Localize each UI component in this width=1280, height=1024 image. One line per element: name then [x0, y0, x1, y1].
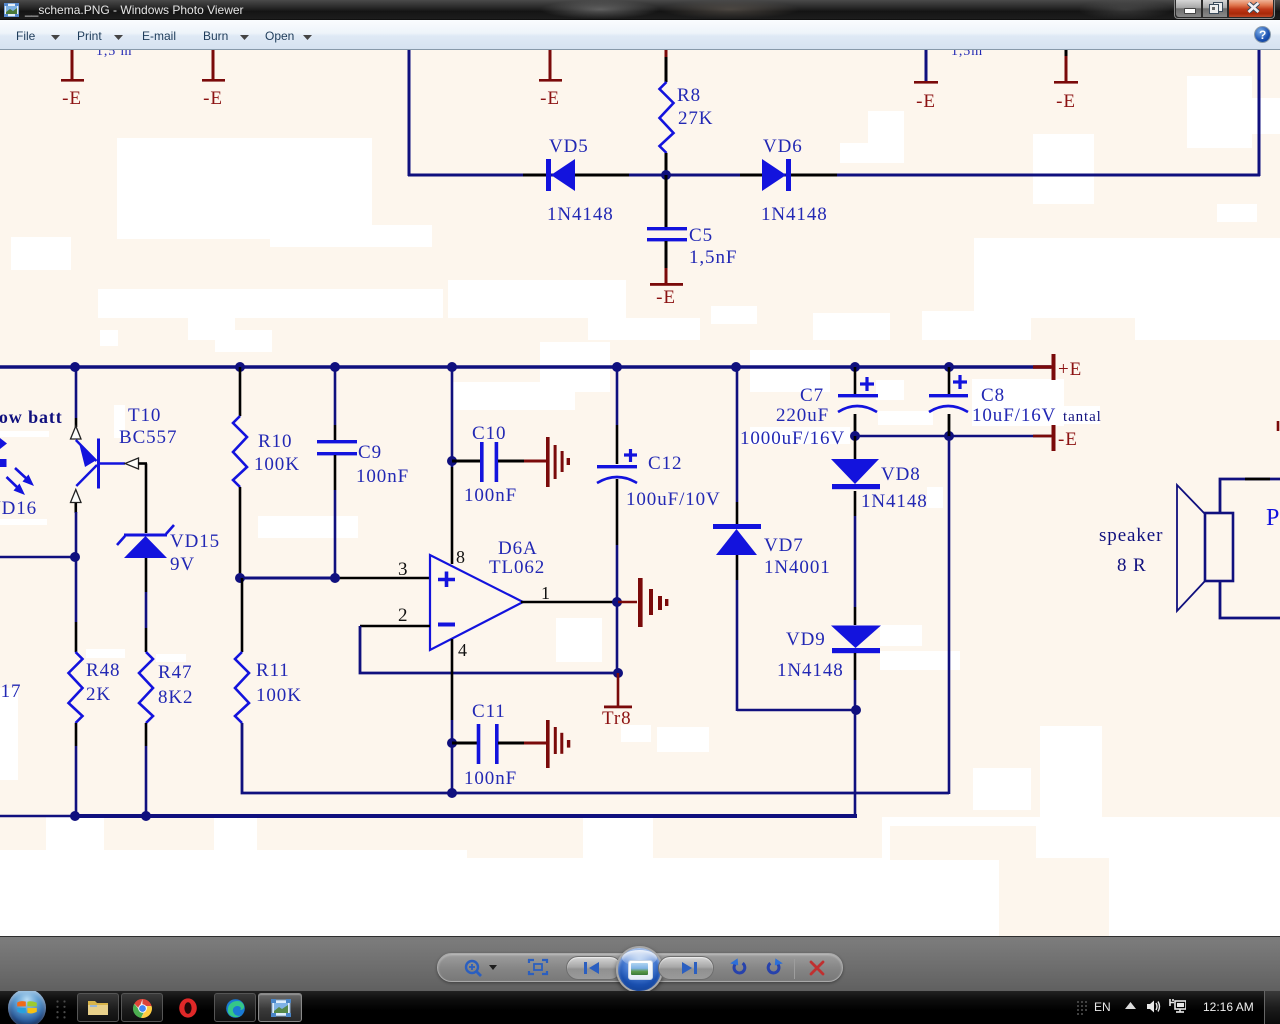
svg-text:-E: -E — [203, 88, 223, 109]
wire (speaker bottom) — [1220, 581, 1280, 618]
resistor R47 8K2 — [139, 652, 193, 723]
svg-text:1,5nF: 1,5nF — [689, 247, 737, 268]
taskbar button: explorer — [77, 993, 119, 1022]
svg-text:tantal: tantal — [1063, 409, 1102, 425]
svg-text:9V: 9V — [170, 554, 195, 575]
wire (right vertical to main row) — [1258, 50, 1261, 176]
wire (T10 collector down) — [75, 512, 78, 622]
ground (chassis, at op-amp output) — [618, 578, 668, 627]
svg-text:C11: C11 — [472, 701, 506, 722]
svg-text:-E: -E — [656, 287, 676, 308]
wire (C8 branch down to return row) — [948, 436, 951, 794]
wire (feedback loop) — [360, 626, 618, 673]
app icon — [4, 3, 19, 17]
svg-text:220uF: 220uF — [776, 405, 829, 426]
wire (-E row y436) — [855, 435, 1051, 438]
svg-text:1N4148: 1N4148 — [547, 204, 614, 225]
svg-text:1N4148: 1N4148 — [861, 491, 928, 512]
svg-text:D6A: D6A — [498, 538, 538, 559]
svg-text:VD8: VD8 — [881, 464, 921, 485]
svg-text:8K2: 8K2 — [158, 687, 193, 708]
svg-text:100nF: 100nF — [464, 768, 517, 789]
ground -E (top left 1) — [61, 50, 84, 109]
wire (pin4 to bottom row) — [451, 743, 454, 793]
taskbar button: photo viewer (active) — [258, 993, 302, 1022]
svg-text:C9: C9 — [358, 442, 382, 463]
wire (R11 to -E return row y793) — [242, 723, 949, 793]
capacitor C7 220uF / 1000uF/16V — [740, 367, 878, 449]
node (LED/T10 junction) — [70, 552, 80, 562]
wire (inverting input y626) — [360, 625, 430, 628]
taskbar button: chrome — [121, 993, 163, 1022]
speaker 8R — [1099, 485, 1233, 611]
svg-text:100K: 100K — [256, 685, 302, 706]
svg-text:1N4148: 1N4148 — [777, 660, 844, 681]
tray grip dots — [1076, 1000, 1088, 1016]
wire (R47 to bottom bus) — [145, 723, 148, 746]
show desktop — [1264, 991, 1280, 1024]
capacitor C8 10uF/16V tantal — [929, 367, 1102, 437]
svg-text:R48: R48 — [86, 660, 120, 681]
wire (noninverting input row y578) — [240, 577, 335, 580]
node (bottom bus junctions) — [70, 811, 80, 821]
svg-text:1N4148: 1N4148 — [761, 204, 828, 225]
ground -E (below C5) — [650, 268, 683, 308]
pin 8 (V+) wire — [451, 367, 454, 467]
opera icon (no frame) — [178, 998, 198, 1018]
capacitor C5 1,5nF — [647, 175, 737, 284]
svg-text:10uF/16V: 10uF/16V — [972, 405, 1056, 426]
power +E — [1033, 354, 1082, 380]
svg-text:2K: 2K — [86, 684, 111, 705]
svg-text:R8: R8 — [677, 85, 701, 106]
svg-text:VD16: VD16 — [0, 498, 37, 519]
capacitor C9 100nF — [317, 367, 409, 578]
wire (speaker top) — [1220, 479, 1280, 513]
ground -E (top left 2) — [202, 50, 225, 109]
svg-text:8 R: 8 R — [1117, 555, 1147, 576]
svg-text:VD7: VD7 — [764, 535, 804, 556]
svg-text:D17: D17 — [0, 681, 21, 702]
svg-text:-E: -E — [540, 88, 560, 109]
magnifier + dropdown — [462, 959, 502, 979]
svg-text:speaker: speaker — [1099, 525, 1163, 546]
taskbar button: edge — [214, 993, 256, 1022]
svg-text:VD5: VD5 — [549, 136, 589, 157]
svg-text:4: 4 — [458, 640, 468, 660]
diode VD5 1N4148 — [546, 136, 614, 225]
wire (left horizontal into junction) — [0, 556, 76, 559]
capacitor C11 100nF — [452, 701, 546, 789]
LED VD16 (cut at left edge) — [0, 438, 37, 519]
divider — [794, 959, 795, 979]
ground (chassis, right of C10) — [546, 437, 570, 487]
svg-text:100nF: 100nF — [356, 466, 409, 487]
svg-text:T10: T10 — [128, 405, 161, 426]
svg-text:100uF/10V: 100uF/10V — [626, 489, 721, 510]
wire (T10 base down to VD15) — [145, 464, 148, 534]
zener diode VD15 9V — [117, 525, 220, 575]
network icon — [1169, 998, 1186, 1015]
svg-text:1N4001: 1N4001 — [764, 557, 831, 578]
wire (VD15 to R47) — [145, 558, 148, 592]
ground (chassis, right of C11) — [546, 720, 570, 768]
svg-text:1: 1 — [541, 583, 551, 603]
svg-text:1,5 m: 1,5 m — [96, 50, 132, 59]
svg-text:-E: -E — [1058, 429, 1078, 450]
transistor T10 BC557 — [71, 405, 178, 513]
toolbar pill — [437, 953, 843, 982]
wire (bottom bus y816) — [0, 815, 75, 817]
svg-text:-E: -E — [1056, 91, 1076, 112]
wire (left vertical to main row) — [408, 50, 411, 176]
node (R10 row junctions) — [235, 573, 245, 583]
node (C7 bottom junction) — [850, 431, 860, 441]
svg-text:8: 8 — [456, 547, 466, 567]
svg-text:27K: 27K — [678, 108, 713, 129]
decorative white strips near VD16 — [0, 431, 49, 437]
diode VD7 1N4001 — [713, 367, 831, 711]
wire (main supply bus y367) — [0, 365, 1051, 368]
node (junction R8/VD5/VD6/C5) — [661, 170, 671, 180]
start orb — [7, 991, 47, 1024]
prev button — [566, 956, 622, 980]
diode VD8 1N4148 — [831, 436, 928, 625]
diode VD6 1N4148 — [761, 136, 828, 225]
svg-text:R10: R10 — [258, 431, 292, 452]
rotate ccw — [729, 958, 749, 977]
svg-text:C10: C10 — [472, 423, 506, 444]
pin 4 (V-) wire — [451, 639, 454, 720]
svg-text:C8: C8 — [981, 385, 1005, 406]
svg-text:R11: R11 — [256, 660, 290, 681]
svg-text:BC557: BC557 — [119, 427, 177, 448]
svg-text:VD9: VD9 — [786, 629, 826, 650]
EN — [1094, 1000, 1111, 1014]
taskbar grip — [56, 1000, 66, 1019]
node (output junction) — [612, 597, 622, 607]
node (feedback/output junction) — [613, 668, 623, 678]
svg-text:R47: R47 — [158, 662, 192, 683]
delete X — [808, 960, 826, 976]
wire (R48 to bottom bus) — [75, 723, 78, 746]
wire (output y602) — [521, 601, 618, 604]
wire (bus to T10 emitter) — [75, 367, 78, 418]
resistor R11 100K — [235, 578, 302, 723]
svg-text:C5: C5 — [689, 225, 713, 246]
node (bottom row junction) — [447, 788, 457, 798]
svg-text:1,5m: 1,5m — [951, 50, 983, 59]
next button — [658, 956, 714, 980]
svg-text:P: P — [1266, 505, 1280, 531]
diode VD9 1N4148 — [777, 626, 881, 817]
power -E (right) — [1033, 425, 1078, 451]
svg-text:C7: C7 — [800, 385, 824, 406]
fit button — [527, 958, 549, 976]
tick (right edge) — [1277, 421, 1280, 431]
rotate cw — [764, 958, 784, 977]
node (C11 junction) — [447, 738, 457, 748]
test point Tr8 — [602, 673, 632, 729]
ground -E (top mid) — [539, 50, 562, 109]
resistor R48 2K — [69, 652, 121, 723]
svg-text:100nF: 100nF — [464, 485, 517, 506]
svg-text:+E: +E — [1058, 359, 1082, 380]
resistor R8 — [660, 50, 714, 174]
capacitor C10 100nF — [447, 423, 546, 506]
help button — [1254, 26, 1271, 43]
svg-text:100K: 100K — [254, 454, 300, 475]
op-amp U D6A TL062 — [430, 538, 545, 650]
resistor R10 100K — [233, 367, 300, 578]
svg-text:-E: -E — [62, 88, 82, 109]
svg-text:-E: -E — [916, 91, 936, 112]
svg-text:Tr8: Tr8 — [602, 708, 631, 729]
ground -E (top right 1, navy stem) — [914, 50, 938, 112]
node (C8 bottom junction) — [944, 431, 954, 441]
node (bus junctions) — [70, 362, 954, 372]
speaker icon — [1147, 999, 1162, 1014]
svg-text:1000uF/16V: 1000uF/16V — [740, 428, 845, 449]
wire (main horizontal row y175) — [408, 174, 1260, 177]
caption buttons — [1174, 0, 1275, 19]
svg-text:Low batt: Low batt — [0, 407, 63, 427]
hidden icons arrow — [1125, 1002, 1136, 1010]
node (junction at diode string bottom) — [851, 705, 861, 715]
ground -E (top right 2) — [1054, 50, 1078, 112]
svg-text:2: 2 — [398, 605, 408, 626]
svg-text:VD6: VD6 — [763, 136, 803, 157]
wire (output junction down) — [616, 602, 619, 673]
capacitor C12 100uF/10V — [597, 367, 721, 602]
svg-text:3: 3 — [398, 559, 408, 580]
svg-text:VD15: VD15 — [170, 531, 220, 552]
wire (VD7 branch to diode string) — [737, 709, 856, 712]
svg-text:TL062: TL062 — [489, 557, 545, 578]
svg-text:C12: C12 — [648, 453, 682, 474]
clock — [1203, 1000, 1254, 1014]
